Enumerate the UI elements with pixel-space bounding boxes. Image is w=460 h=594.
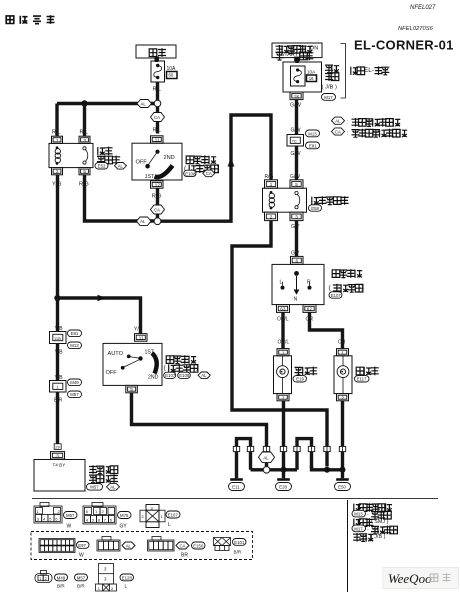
wire label R/G at relay pin1 xyxy=(265,174,274,180)
condition tag AL for U2 xyxy=(198,372,210,379)
wire down to auto light control unit xyxy=(56,392,59,444)
lighting switch pin 11 xyxy=(151,136,164,143)
wire label OR above lamp xyxy=(338,340,346,346)
wire label B below left lamp xyxy=(282,403,286,409)
svg-text:E128: E128 xyxy=(122,575,133,580)
combination switch U4 (corner lamp switch) body xyxy=(272,264,324,304)
svg-text:E117: E117 xyxy=(357,377,367,382)
connector tag E108 for U2 xyxy=(178,372,191,378)
svg-text:R/L: R/L xyxy=(80,130,89,136)
wire label B below pin2 xyxy=(269,224,273,230)
svg-text:3: 3 xyxy=(295,215,298,220)
svg-text:B/R: B/R xyxy=(57,584,65,589)
svg-text:E28: E28 xyxy=(279,485,287,490)
svg-text:M49: M49 xyxy=(57,575,66,580)
tiny label 29 xyxy=(54,444,61,450)
svg-text:M17: M17 xyxy=(324,95,333,100)
ground bus segment 2 xyxy=(270,468,297,471)
connector tag E128 + colour L xyxy=(120,574,134,589)
wire label OR/L xyxy=(277,317,289,323)
svg-text:1: 1 xyxy=(56,138,59,143)
tail relay pin 2 xyxy=(52,168,63,175)
lighting switch pin 12 xyxy=(151,181,164,188)
inline connector tick 3 xyxy=(263,446,269,451)
connector tag E150 + colour BR xyxy=(181,542,205,559)
inline connector tick 7 xyxy=(324,446,330,451)
svg-text:E107: E107 xyxy=(168,513,179,518)
fusible link F (30A, box 60) xyxy=(151,61,177,82)
connector tag M13 xyxy=(306,130,320,137)
condition tag AL for K1 xyxy=(115,163,127,170)
wire battery to fusible link xyxy=(155,57,160,63)
wire label Y/B xyxy=(55,326,64,332)
corner relay pin 5 xyxy=(290,180,303,188)
connector tag M75 + colour GY xyxy=(118,512,132,530)
combination switch U2 (lighting switch AUTO) body xyxy=(103,343,162,385)
wire label B below right lamp xyxy=(341,403,345,409)
connector face E101 (row2) xyxy=(214,538,231,551)
svg-text:R/L: R/L xyxy=(153,128,162,134)
title 左舵车型 (LHD models) xyxy=(6,15,54,24)
left corner lamp pin 1 xyxy=(277,349,289,356)
left corner lamp pin 2 xyxy=(277,394,289,401)
connector tag M57 xyxy=(68,391,82,398)
wire SMJ to corner relay pin5 xyxy=(295,146,298,180)
direction arrow right on branch xyxy=(98,295,107,302)
inline connector tick 1 xyxy=(233,446,239,451)
svg-text:G/Y: G/Y xyxy=(291,251,300,257)
condition tag AL (row2) xyxy=(122,542,135,549)
svg-text:2ND: 2ND xyxy=(164,155,175,161)
wire tail relay pin5 R/G to bus xyxy=(85,175,155,221)
svg-text:AL: AL xyxy=(335,119,341,124)
svg-text:AL: AL xyxy=(263,455,269,460)
svg-text:NFEL027: NFEL027 xyxy=(410,5,436,11)
condition tag CA for U1 xyxy=(203,170,215,177)
wire label G/W xyxy=(291,128,301,134)
connector tag E52 for K1 xyxy=(95,163,108,169)
wire J/B to SMJ xyxy=(295,100,298,134)
condition tag AL for U3 xyxy=(107,483,120,490)
svg-text:OFF: OFF xyxy=(106,370,118,376)
svg-text:): ) xyxy=(361,284,363,291)
ground bus segment 3 xyxy=(312,466,343,470)
svg-text:2: 2 xyxy=(341,395,344,400)
svg-text:M13: M13 xyxy=(354,512,363,517)
svg-text:AL: AL xyxy=(118,164,124,169)
tail relay pin 3 xyxy=(79,136,90,143)
divider vertical xyxy=(347,500,349,592)
svg-text:M57: M57 xyxy=(70,392,79,397)
wire right lamp to ground bus xyxy=(341,401,344,470)
junction dot right lamp ground xyxy=(340,467,346,473)
connector tag M13 xyxy=(68,342,82,349)
svg-text:B/R: B/R xyxy=(234,550,242,555)
wire branch to auto lighting switch xyxy=(58,298,141,334)
wire label B/R xyxy=(54,398,63,404)
svg-text:M57: M57 xyxy=(77,575,86,580)
corner lamp relay K2 body 角灯继电器 xyxy=(263,188,307,212)
svg-text:1: 1 xyxy=(270,182,273,187)
svg-text:M13: M13 xyxy=(70,343,79,348)
svg-text:63: 63 xyxy=(280,307,286,312)
wire below AL tag to splice xyxy=(265,463,268,467)
svg-text:M75: M75 xyxy=(120,513,129,518)
ground symbol E11 xyxy=(229,480,245,491)
wire tail relay pin2 Y/G down left column xyxy=(56,175,59,295)
combination switch U1 (lighting switch) body xyxy=(132,143,182,180)
fuse block J/B outline xyxy=(283,62,322,92)
svg-text:2: 2 xyxy=(282,395,285,400)
reference note 参见以下内容 xyxy=(354,503,392,512)
condition tag CA below node xyxy=(151,107,165,134)
svg-text:2: 2 xyxy=(56,169,59,174)
note tag M13 超多路连接器(SMJ) xyxy=(352,510,391,527)
wire left lamp to ground bus xyxy=(282,401,285,470)
svg-text:E52: E52 xyxy=(98,164,106,169)
svg-text:5: 5 xyxy=(83,169,86,174)
wire label OR xyxy=(306,317,314,323)
label 右角灯 for E2 xyxy=(356,367,379,376)
svg-text:GY: GY xyxy=(120,524,128,530)
legend condition AL = with auto light system xyxy=(332,117,401,127)
svg-text:R: R xyxy=(307,280,311,286)
tail lamp relay K1 body 尾灯继电器 xyxy=(49,143,93,167)
ground jumper P1 (E11 to bus) xyxy=(237,439,251,479)
wire corner relay pin3 G/Y to corner switch xyxy=(295,221,298,257)
svg-text:12: 12 xyxy=(155,183,161,188)
svg-text:3: 3 xyxy=(56,453,59,458)
wire label Y/G xyxy=(52,182,61,188)
ground bus segment 1 xyxy=(251,468,264,471)
watermark WeeQoo text xyxy=(388,571,451,586)
svg-text:E101: E101 xyxy=(234,540,245,545)
svg-text:CA: CA xyxy=(154,115,160,120)
svg-text:60: 60 xyxy=(169,73,174,78)
svg-text:): ) xyxy=(217,165,219,172)
splice circle C on ground bus xyxy=(263,467,270,474)
svg-text:7C: 7C xyxy=(292,139,297,144)
battery 电瓶 xyxy=(136,45,176,58)
connector tag M49 + colour B/R xyxy=(55,574,68,589)
corner switch pin 6 xyxy=(291,256,304,264)
svg-text:AL: AL xyxy=(140,219,146,224)
fuse 10A (box 16) in J/B xyxy=(291,66,317,86)
auto lighting switch pin 11 xyxy=(135,334,148,342)
svg-text:NFEL0270S6: NFEL0270S6 xyxy=(398,26,434,32)
label 组合开关(角灯开关) for U4 xyxy=(329,269,364,292)
inline connector tick 6 xyxy=(308,446,314,451)
wire fusible link to node xyxy=(156,82,159,100)
svg-text:M13: M13 xyxy=(308,131,317,136)
dashed option box xyxy=(31,532,253,560)
svg-text:N: N xyxy=(294,296,298,302)
connector tag M57 + colour W xyxy=(64,512,78,530)
svg-text:1: 1 xyxy=(282,350,285,355)
connector face M49 (row3) xyxy=(35,571,52,583)
wire label Y/B below SMJ xyxy=(55,350,64,356)
svg-text:E58: E58 xyxy=(311,206,319,211)
wire pin12 down, label R/G xyxy=(152,188,162,217)
connector face E107 cross (row1) xyxy=(140,505,165,528)
svg-text:OR/L: OR/L xyxy=(278,340,290,346)
inline connector M49/M57 on left column xyxy=(50,381,67,393)
figure code NFEL0270S6 xyxy=(398,26,434,32)
svg-text:R/G: R/G xyxy=(265,174,274,180)
auto lighting switch bottom pin 5 xyxy=(126,385,138,392)
node splice circle A xyxy=(154,100,161,107)
svg-text:E108: E108 xyxy=(179,373,190,378)
svg-text:2: 2 xyxy=(270,215,273,220)
svg-text:WeeQoo: WeeQoo xyxy=(388,571,432,586)
svg-text:1K: 1K xyxy=(294,94,301,99)
wire label R/L xyxy=(153,128,162,134)
svg-text:M17: M17 xyxy=(354,526,363,531)
svg-text:L: L xyxy=(168,522,171,528)
svg-text:L: L xyxy=(125,584,128,589)
label 组合开关(灯光开关) for U1 xyxy=(184,155,219,173)
label 自动灯光控制单元 for U3 xyxy=(89,465,118,483)
svg-text:E150: E150 xyxy=(193,543,204,548)
inline connector tick 5 xyxy=(294,446,300,451)
label 组合开关(灯光开关) for U2 xyxy=(164,355,199,372)
legend condition CA = without auto light system xyxy=(332,128,408,138)
wire R/L to tail relay pin3 xyxy=(80,104,89,137)
svg-text:T4 BY: T4 BY xyxy=(53,463,66,468)
wire label R/G xyxy=(79,182,89,188)
wire label G/Y below pin3 xyxy=(291,224,300,230)
svg-text:2ND: 2ND xyxy=(148,375,159,381)
svg-text:( J/B ): ( J/B ) xyxy=(371,534,386,540)
svg-text:29: 29 xyxy=(55,445,60,450)
wire pin63 to left corner lamp xyxy=(281,312,284,348)
connector tag E58 for K2 xyxy=(309,205,322,211)
svg-text:1ST: 1ST xyxy=(145,174,155,180)
svg-text:BR: BR xyxy=(181,553,188,559)
wire label OR/L above lamp xyxy=(278,340,290,346)
corner relay pin 3 xyxy=(290,212,303,220)
svg-text:CA: CA xyxy=(154,208,160,213)
svg-text:1: 1 xyxy=(341,350,344,355)
auto light control unit U3 自动灯光控制单元 xyxy=(34,460,85,492)
condition tag AL on ground branch xyxy=(259,452,275,463)
svg-text:W: W xyxy=(79,553,84,559)
wire label G/W below 1K xyxy=(290,103,302,109)
svg-text:CA: CA xyxy=(335,129,341,134)
control unit pin 3 xyxy=(51,452,65,459)
page title EL-CORNER-01 xyxy=(354,38,454,53)
wire ignition to J/B xyxy=(294,57,300,63)
condition tag AL on branch xyxy=(137,100,152,108)
svg-text:E81: E81 xyxy=(309,143,317,148)
wire auto switch B to ground branch xyxy=(132,393,267,451)
splice circle B xyxy=(154,218,161,225)
svg-text:CA: CA xyxy=(206,171,212,176)
corner switch pin 62 xyxy=(303,305,316,313)
wire pin62 to right corner lamp xyxy=(310,312,343,348)
svg-text:E97: E97 xyxy=(78,543,86,548)
svg-text:Y/B: Y/B xyxy=(134,327,143,333)
svg-text:EL-CORNER-01: EL-CORNER-01 xyxy=(354,38,454,53)
connector tag E107 for U2 xyxy=(164,372,176,378)
svg-text:5: 5 xyxy=(130,387,133,392)
wire corner relay pin2 B to ground riser xyxy=(232,221,327,467)
connector tag M49 xyxy=(68,379,82,386)
svg-text:E81: E81 xyxy=(71,331,79,336)
svg-text:R/L: R/L xyxy=(52,130,61,136)
svg-text:E19: E19 xyxy=(296,377,304,382)
svg-text:M57: M57 xyxy=(90,485,99,490)
wire SMJ to connector M49 xyxy=(56,344,59,381)
inline connector tick 4 xyxy=(280,446,286,451)
svg-text:E50: E50 xyxy=(338,485,346,490)
svg-text:AL: AL xyxy=(141,101,147,106)
svg-text:AL: AL xyxy=(110,485,116,490)
left corner lamp E1 左角灯 xyxy=(274,356,292,394)
connector face E98 (row2) xyxy=(97,537,120,552)
corner switch pin 63 xyxy=(277,305,290,313)
svg-text:E11: E11 xyxy=(232,485,240,490)
tail relay pin 5 xyxy=(79,168,90,175)
wire label Y/B at auto switch pin xyxy=(134,327,143,333)
svg-text:OFF: OFF xyxy=(136,159,148,165)
wire label B xyxy=(130,396,134,402)
svg-text:16: 16 xyxy=(309,76,314,81)
connector face M75 (row1) xyxy=(83,503,116,525)
wire R/L to tail relay pin1 xyxy=(52,104,61,137)
wire node to tail-lamp-relay branch xyxy=(57,102,154,105)
svg-text:M49: M49 xyxy=(70,380,79,385)
svg-text:.: . xyxy=(390,504,391,510)
wire bus from splice to corner relay coil R/G xyxy=(161,115,271,221)
svg-text:E107: E107 xyxy=(165,373,176,378)
separator line xyxy=(32,498,438,500)
svg-text:G/W: G/W xyxy=(290,174,300,180)
connector tag E117 for E2 xyxy=(355,376,370,382)
connector tag E19 for E1 xyxy=(293,376,307,382)
svg-text:( J/B ): ( J/B ) xyxy=(322,85,338,91)
ground jumper P2 over bus xyxy=(297,439,312,470)
connector tag E107 + colour L xyxy=(166,511,180,528)
svg-text:L: L xyxy=(280,280,283,286)
junction dot xyxy=(81,100,87,106)
condition tag CA on pin12 wire xyxy=(151,205,165,214)
svg-text:G/W: G/W xyxy=(291,128,301,134)
svg-text:EL-: EL- xyxy=(364,67,374,74)
condition tag AL on bus xyxy=(137,217,152,225)
junction dot left column xyxy=(54,295,60,301)
connector face E97 (row2) xyxy=(39,539,75,553)
svg-text::: : xyxy=(347,120,348,126)
svg-text:AUTO: AUTO xyxy=(108,351,124,357)
watermark WeeQoo box xyxy=(383,568,459,589)
svg-text:AL: AL xyxy=(201,373,207,378)
connector tag E97 + colour W xyxy=(77,542,90,559)
wire label G/W at relay pin5 xyxy=(290,174,300,180)
connector tag M57 + colour B/R (row3) xyxy=(75,574,88,589)
figure code NFEL027 xyxy=(410,5,436,11)
connector face E128 (row3) xyxy=(96,564,117,592)
svg-text:5: 5 xyxy=(295,182,298,187)
svg-text:W: W xyxy=(67,524,72,530)
label 左角灯 for E1 xyxy=(295,367,318,376)
direction arrow up on R/G riser xyxy=(228,158,235,167)
wire label G/Y xyxy=(291,251,300,257)
junction dot left lamp ground xyxy=(281,467,287,473)
right corner lamp E2 右角灯 xyxy=(334,356,352,394)
ground symbol E28 xyxy=(276,470,292,491)
tail relay pin 1 xyxy=(52,136,63,143)
corner relay pin 2 xyxy=(265,212,278,220)
svg-text::: : xyxy=(347,130,348,136)
connector tag E81 xyxy=(306,142,320,149)
svg-text:11B: 11B xyxy=(54,336,61,341)
svg-text:6: 6 xyxy=(296,259,299,264)
svg-text:3: 3 xyxy=(83,138,86,143)
connector tag M17 for J/B xyxy=(322,94,336,101)
corner relay pin 1 xyxy=(265,180,278,188)
svg-text:M57: M57 xyxy=(66,513,75,518)
connector tag M57 for U3 xyxy=(87,484,103,491)
wire label R/L xyxy=(153,87,162,93)
svg-text:E108: E108 xyxy=(185,171,196,176)
label 保险丝盒(J/B) xyxy=(322,65,340,91)
svg-text:CA: CA xyxy=(180,543,186,548)
right corner lamp pin 2 xyxy=(337,394,349,401)
connector tag E101 + colour B/R xyxy=(233,539,247,555)
svg-text:B/R: B/R xyxy=(77,584,85,589)
svg-text:11: 11 xyxy=(139,336,144,341)
svg-text:OR: OR xyxy=(338,340,346,346)
svg-text:R/G: R/G xyxy=(152,193,162,199)
junction dot relay ground riser xyxy=(324,467,330,473)
connector tag E81 xyxy=(68,330,82,337)
svg-text:): ) xyxy=(196,365,198,372)
svg-text:AL: AL xyxy=(126,543,132,548)
svg-text:ON: ON xyxy=(310,45,318,51)
reference bracket 参见 EL-电源 xyxy=(341,44,346,99)
svg-text:E107: E107 xyxy=(331,293,342,298)
ground symbol E50 xyxy=(335,470,351,491)
connector tag E108 for U1 xyxy=(184,170,196,176)
inline connector tick 2 xyxy=(247,446,253,451)
label 角灯继电器 for K2 xyxy=(312,196,349,205)
connector face E150 (row2) xyxy=(148,537,175,552)
ignition switch box 点火开关处于ON或START位置 xyxy=(272,43,322,60)
condition tag CA (row2) xyxy=(176,542,189,549)
svg-text:( SMJ ): ( SMJ ) xyxy=(371,519,389,525)
right corner lamp pin 1 xyxy=(337,349,349,356)
svg-text:62: 62 xyxy=(307,307,313,312)
J/B output pin 1K xyxy=(290,92,303,100)
connector tag E107 for U4 xyxy=(329,292,342,298)
wire left column continues xyxy=(56,298,59,332)
inline connector tick 8 xyxy=(339,446,345,451)
connector face M57 (row1) xyxy=(34,503,62,524)
svg-text:10A: 10A xyxy=(307,70,316,75)
wire label Y/B xyxy=(55,375,64,381)
svg-text:11: 11 xyxy=(155,138,160,143)
note tag M17 保险丝盒-接线盒(J/B) xyxy=(352,525,397,542)
SMJ inline connector on left column xyxy=(50,332,67,344)
wire label G/W below SMJ xyxy=(291,151,301,157)
SMJ inline connector on G/W xyxy=(287,135,304,147)
label 尾灯继电器 for K1 xyxy=(97,147,120,165)
